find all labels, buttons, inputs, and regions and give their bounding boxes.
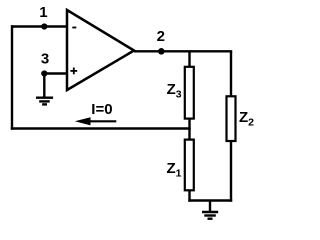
- wire op-amp output to right column: [134, 50, 232, 52]
- wire right column top: [230, 51, 232, 96]
- wire node2 branch down to Z3: [188, 51, 190, 67]
- svg-text:Z3: Z3: [167, 81, 182, 101]
- svg-text:2: 2: [157, 28, 165, 45]
- op-amp minus sign: [72, 27, 76, 29]
- wire ground stem bottom: [209, 201, 211, 213]
- ground at node 3: [36, 98, 53, 105]
- op-amp plus sign: [70, 68, 77, 75]
- wire Z3 bottom through feedback junction to Z1 top: [188, 118, 190, 140]
- ground at bottom: [202, 212, 218, 219]
- wire left feedback vertical: [11, 25, 13, 129]
- node 1: [41, 23, 47, 29]
- svg-text:I=0: I=0: [91, 101, 112, 118]
- current arrow I=0: [75, 117, 117, 125]
- wire feedback horizontal: [11, 127, 191, 129]
- wire from node 3 to non-inverting input: [44, 72, 67, 74]
- wire bottom rail: [188, 199, 232, 201]
- wire node 3 to ground: [43, 74, 45, 98]
- svg-text:Z1: Z1: [167, 160, 182, 180]
- impedance Z2: [227, 96, 236, 141]
- svg-text:Z2: Z2: [239, 109, 254, 129]
- wire from node 1 to inverting input: [11, 25, 67, 27]
- op-amp U1: [67, 10, 134, 90]
- node 3: [41, 70, 47, 76]
- svg-text:1: 1: [39, 4, 47, 21]
- impedance Z3: [185, 67, 194, 119]
- svg-text:3: 3: [41, 50, 49, 67]
- impedance Z1: [185, 140, 194, 191]
- node 2: [158, 48, 165, 55]
- wire Z1 bottom to bottom rail: [188, 190, 190, 201]
- wire right column bottom: [230, 141, 232, 202]
